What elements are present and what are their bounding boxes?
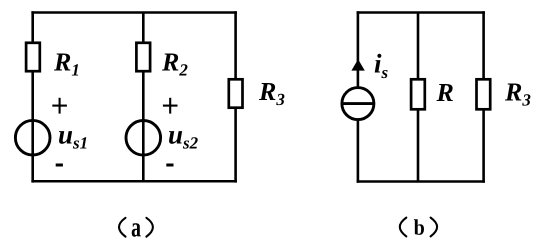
svg-text:R: R xyxy=(436,78,454,107)
plus sign of u_s1 xyxy=(52,98,67,114)
caption (b) opening parenthesis xyxy=(400,218,407,237)
minus sign of u_s2 xyxy=(166,164,173,167)
resistor R (circuit b) xyxy=(411,79,425,109)
wire: circuit (b) left edge (current source branch) xyxy=(357,11,360,183)
wire: circuit (a) right edge (branch of R3) xyxy=(234,11,237,182)
wire: circuit (a) bottom edge xyxy=(31,180,237,183)
wire: circuit (b) bottom edge xyxy=(357,180,485,183)
voltage source u_s2 xyxy=(126,121,161,156)
wire: circuit (a) left edge (branch of R1 and u_s1) xyxy=(31,11,34,182)
resistor R1 xyxy=(26,43,40,71)
arrow of current source i_s xyxy=(351,59,364,70)
wire: circuit (a) top edge xyxy=(31,11,237,14)
resistor R3 (circuit a) xyxy=(229,79,243,107)
resistor R3 (circuit b) xyxy=(477,79,491,109)
wire: circuit (b) top edge xyxy=(357,11,485,14)
caption (b) closing parenthesis xyxy=(431,218,438,237)
plus sign of u_s2 xyxy=(163,98,178,114)
voltage source u_s1 xyxy=(15,120,50,155)
wire: circuit (a) middle branch (R2 / u_s2) xyxy=(142,13,145,182)
wire: circuit (b) right edge (branch of R3) xyxy=(482,11,485,183)
current source i_s xyxy=(342,88,374,120)
caption (a) closing parenthesis xyxy=(146,218,153,237)
caption (b) letter b xyxy=(414,219,424,235)
caption (a) opening parenthesis xyxy=(119,218,126,237)
minus sign of u_s1 xyxy=(56,164,63,167)
caption (a) letter a xyxy=(132,223,141,236)
wire: circuit (b) middle branch (R) xyxy=(417,13,420,182)
current source chord xyxy=(342,102,374,105)
resistor R2 xyxy=(136,43,150,71)
